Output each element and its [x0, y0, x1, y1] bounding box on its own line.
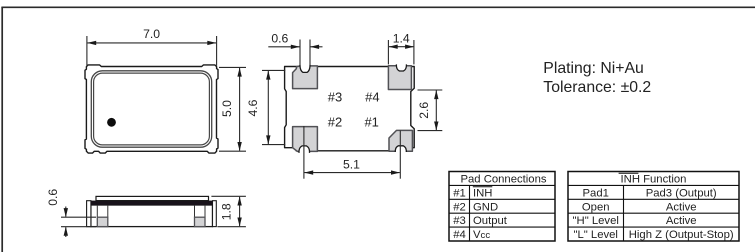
pad connections table row line 2: [449, 198, 555, 200]
dimension 7.0 arrowhead left: [87, 41, 96, 45]
dimension 5.0 arrowhead top: [237, 68, 241, 77]
svg-text:"H" Level: "H" Level: [573, 215, 619, 227]
svg-text:INH Function: INH Function: [621, 174, 687, 186]
svg-text:5.0: 5.0: [220, 100, 234, 117]
dimension 1.8 extension line top: [211, 195, 246, 197]
INH function table row line 2: [568, 198, 739, 200]
side view left solder pad: [97, 217, 108, 226]
dimension 0.6 side view extension line bottom: [61, 226, 96, 228]
dimension 7.0 line: [87, 42, 216, 44]
dimension 4.6 arrowhead top: [266, 71, 270, 80]
svg-text:Open: Open: [582, 201, 610, 213]
dimension 1.8 arrowhead top: [237, 197, 241, 206]
dimension 5.1 line: [304, 172, 399, 174]
pad #4 castellation notch fill: [396, 64, 406, 71]
svg-text:#3: #3: [453, 215, 466, 227]
side view body: [91, 205, 213, 227]
dimension 0.6 extension line left: [299, 40, 301, 65]
svg-text:Pad1: Pad1: [583, 187, 609, 199]
dimension 1.8 arrowhead bottom: [237, 218, 241, 227]
pad connections table column divider: [469, 185, 471, 241]
dimension 0.6 arrowhead pointing left: [310, 45, 319, 49]
pad #2 castellation notch outline: [299, 146, 310, 153]
top view inner lid outline outer rounded rect: [91, 71, 211, 147]
svg-text:INH: INH: [473, 187, 492, 199]
INH function table column divider: [623, 185, 625, 241]
pad #1 castellation notch fill: [395, 146, 406, 152]
svg-text:2.6: 2.6: [417, 102, 431, 119]
dimension 2.6 arrowhead top: [434, 90, 438, 99]
pad #3 castellation notch fill: [300, 64, 310, 72]
dimension 0.6 line right tail: [310, 46, 322, 48]
svg-text:"L" Level: "L" Level: [573, 229, 617, 241]
dimension 5.1 extension line left: [303, 126, 305, 179]
pad connections table row line 4: [449, 226, 555, 228]
INH function table row line 4: [568, 226, 739, 228]
dimension 1.4 extension line left: [387, 40, 389, 64]
dimension 5.1 extension line right: [399, 131, 401, 179]
svg-text:#3: #3: [328, 89, 342, 104]
svg-text:4.6: 4.6: [246, 99, 260, 116]
pad connections table outer box: [449, 172, 555, 242]
dimension 5.0 arrowhead bottom: [237, 142, 241, 151]
dimension 0.6 side view lower tail: [65, 227, 67, 237]
dimension 1.4 line: [389, 46, 414, 48]
dimension 2.6 line: [435, 90, 437, 130]
svg-text:Active: Active: [666, 201, 697, 213]
dimension 0.6 side view extension line top: [61, 216, 96, 218]
svg-text:#2: #2: [453, 201, 466, 213]
dimension 7.0 arrowhead right: [207, 41, 216, 45]
side view right castellation column lines: [194, 205, 196, 217]
svg-text:7.0: 7.0: [143, 27, 160, 41]
svg-text:#1: #1: [364, 114, 378, 129]
dimension 5.1 arrowhead right: [391, 170, 400, 174]
dimension 0.6 side view arrowhead up: [64, 227, 68, 236]
svg-text:Tolerance: ±0.2: Tolerance: ±0.2: [543, 79, 651, 96]
svg-text:High Z (Output-Stop): High Z (Output-Stop): [629, 229, 734, 241]
dimension 1.4 arrowhead right: [405, 45, 414, 49]
side view metal lid: [96, 196, 209, 200]
INH function table outer box: [568, 172, 739, 242]
side view left end cap: [87, 201, 91, 227]
svg-text:0.6: 0.6: [271, 31, 288, 45]
dimension 1.8 line: [239, 197, 241, 226]
top view package outline with corner castellation ears: [85, 65, 218, 153]
pad #4 top-right: [388, 66, 411, 90]
drawing frame border left line: [1, 7, 3, 252]
INH function table header separator: [568, 184, 739, 186]
pad connections table header separator: [449, 184, 555, 186]
pad #3 castellation notch outline: [300, 64, 310, 72]
svg-text:Output: Output: [473, 215, 508, 227]
svg-text:GND: GND: [473, 201, 498, 213]
pad connections row 1 INH overline: [473, 186, 493, 188]
svg-text:#4: #4: [365, 89, 379, 104]
dimension 0.6 arrowhead pointing right: [291, 45, 300, 49]
dimension 2.6 arrowhead bottom: [434, 122, 438, 131]
dimension 4.6 line: [267, 71, 269, 144]
drawing frame border top line: [1, 6, 755, 8]
svg-text:Active: Active: [666, 215, 697, 227]
dimension 4.6 arrowhead bottom: [266, 135, 270, 144]
dimension 0.6 side view arrowhead down: [64, 208, 68, 217]
side view right end cap: [213, 201, 217, 227]
dimension 5.1 arrowhead left: [304, 170, 313, 174]
pad #2 castellation notch fill: [299, 146, 310, 153]
dimension 5.0 line: [239, 68, 241, 151]
side view right solder pad: [195, 217, 206, 226]
dimension 1.8 extension line bottom: [217, 226, 246, 228]
svg-text:#4: #4: [453, 229, 466, 241]
top view inner lid outline inner rounded rect: [94, 73, 210, 145]
svg-text:Vcc: Vcc: [473, 229, 490, 241]
dimension 4.6 extension line top: [262, 69, 285, 71]
INH function table header overline over INH: [619, 172, 639, 174]
dimension 5.0 extension line top: [219, 66, 246, 68]
dimension 0.6 line left tail: [268, 46, 299, 48]
INH function table row line 3: [568, 212, 739, 214]
dimension 1.4 extension line right: [413, 40, 415, 64]
pad #3 top-left: [293, 66, 318, 89]
svg-text:#1: #1: [453, 187, 466, 199]
pad #4 castellation notch outline: [396, 64, 406, 71]
dimension 2.6 extension line bottom: [418, 130, 443, 132]
svg-text:#2: #2: [328, 114, 342, 129]
side view seam ring bar: [91, 201, 213, 206]
dimension 1.4 arrowhead left: [389, 45, 398, 49]
svg-text:0.6: 0.6: [46, 189, 60, 206]
side view left castellation column lines: [96, 205, 98, 217]
dimension 0.6 extension line right: [309, 40, 311, 65]
dimension 4.6 extension line bottom: [262, 144, 285, 146]
pad #1 castellation notch outline: [395, 146, 406, 152]
svg-text:5.1: 5.1: [343, 158, 360, 172]
dimension 0.6 side view upper tail: [65, 207, 67, 217]
svg-text:Pad Connections: Pad Connections: [460, 174, 546, 186]
pin 1 index dot marker: [107, 118, 116, 127]
bottom view package outline with side jogs: [285, 67, 415, 151]
pad #1 bottom-right: [389, 130, 412, 151]
svg-text:1.8: 1.8: [220, 203, 234, 220]
svg-text:Plating: Ni+Au: Plating: Ni+Au: [543, 60, 644, 77]
pad connections table row line 3: [449, 212, 555, 214]
dimension 5.0 extension line bottom: [219, 150, 246, 152]
svg-text:1.4: 1.4: [393, 31, 410, 45]
dimension 7.0 extension line right: [216, 36, 218, 66]
dimension 7.0 extension line left: [86, 36, 88, 66]
dimension 2.6 extension line top: [418, 89, 443, 91]
svg-text:Pad3 (Output): Pad3 (Output): [646, 187, 717, 199]
pad #2 bottom-left: [293, 127, 318, 152]
